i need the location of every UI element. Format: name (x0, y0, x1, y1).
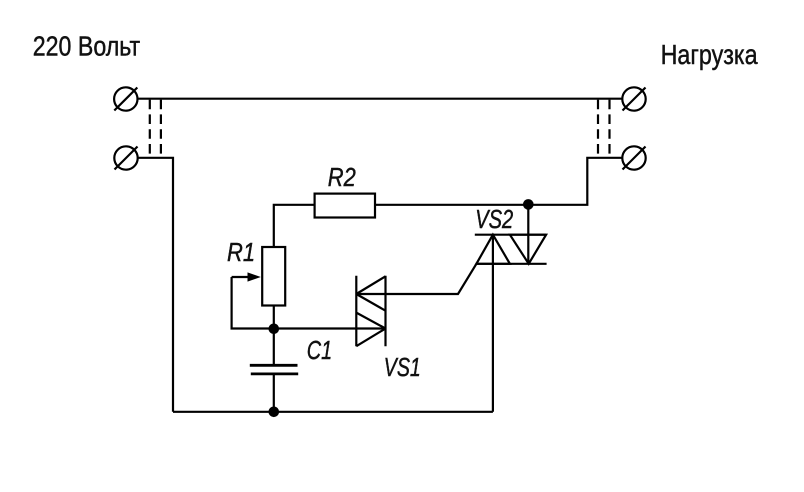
wire triac MT1 lead down to bottom rail (492, 235, 494, 412)
diac VS1 upper triangle side 1 (356, 276, 385, 294)
potentiometer R1 (262, 247, 285, 306)
diac VS1 upper triangle side 2 (356, 294, 385, 311)
wire R1 bottom to node A (273, 306, 275, 330)
resistor R2 (315, 194, 375, 218)
wire top rail (137, 98, 622, 100)
wire wiper down and to node A (232, 277, 274, 329)
dashed link right line 1 (597, 100, 599, 158)
wire C1 bottom to node B (273, 374, 275, 412)
wire bottom-left terminal to left rail (138, 158, 173, 412)
terminal X2 bottom-left (114, 146, 137, 169)
node A junction dot (269, 324, 280, 335)
svg-text:C1: C1 (307, 335, 332, 365)
wire MT2 dot down to triac (527, 205, 529, 264)
diac VS1 left bar (355, 276, 357, 346)
wire VS1 to triac gate (356, 264, 476, 294)
svg-text:VS1: VS1 (384, 352, 421, 382)
capacitor C1 bottom plate (251, 372, 298, 375)
diac VS1 lower triangle side 1 (356, 313, 385, 329)
wire node A to VS1 (274, 327, 386, 329)
triac VS2 right triangle (510, 235, 546, 264)
diac VS1 lower triangle side 2 (356, 329, 385, 347)
svg-text:VS2: VS2 (475, 204, 513, 234)
R1 wiper arrowhead (248, 272, 261, 281)
svg-text:R1: R1 (227, 237, 255, 267)
wire bottom-right terminal down to R2 output node (375, 158, 622, 205)
terminal X1 top-left (114, 87, 137, 110)
dashed link left line 1 (149, 100, 151, 158)
wire node A down to C1 (273, 329, 275, 366)
wire R2 left to R1 top (274, 205, 315, 247)
svg-text:Нагрузка: Нагрузка (661, 39, 758, 70)
R1 wiper arrow line (232, 276, 250, 278)
triac VS2 left triangle (476, 235, 510, 264)
dashed link right line 2 (608, 100, 610, 158)
node B junction dot (269, 407, 280, 418)
terminal X4 bottom-right (622, 146, 645, 169)
svg-text:R2: R2 (328, 162, 356, 192)
triac VS2 bottom line (476, 263, 547, 265)
wire bottom rail (173, 411, 493, 413)
triac VS2 top line (475, 234, 547, 236)
svg-text:220 Вольт: 220 Вольт (33, 31, 140, 62)
dashed link left line 2 (160, 100, 162, 158)
terminal X3 top-right (622, 87, 645, 110)
diac VS1 right bar (384, 276, 386, 346)
node MT2 junction dot (523, 199, 534, 210)
capacitor C1 top plate (250, 364, 298, 367)
